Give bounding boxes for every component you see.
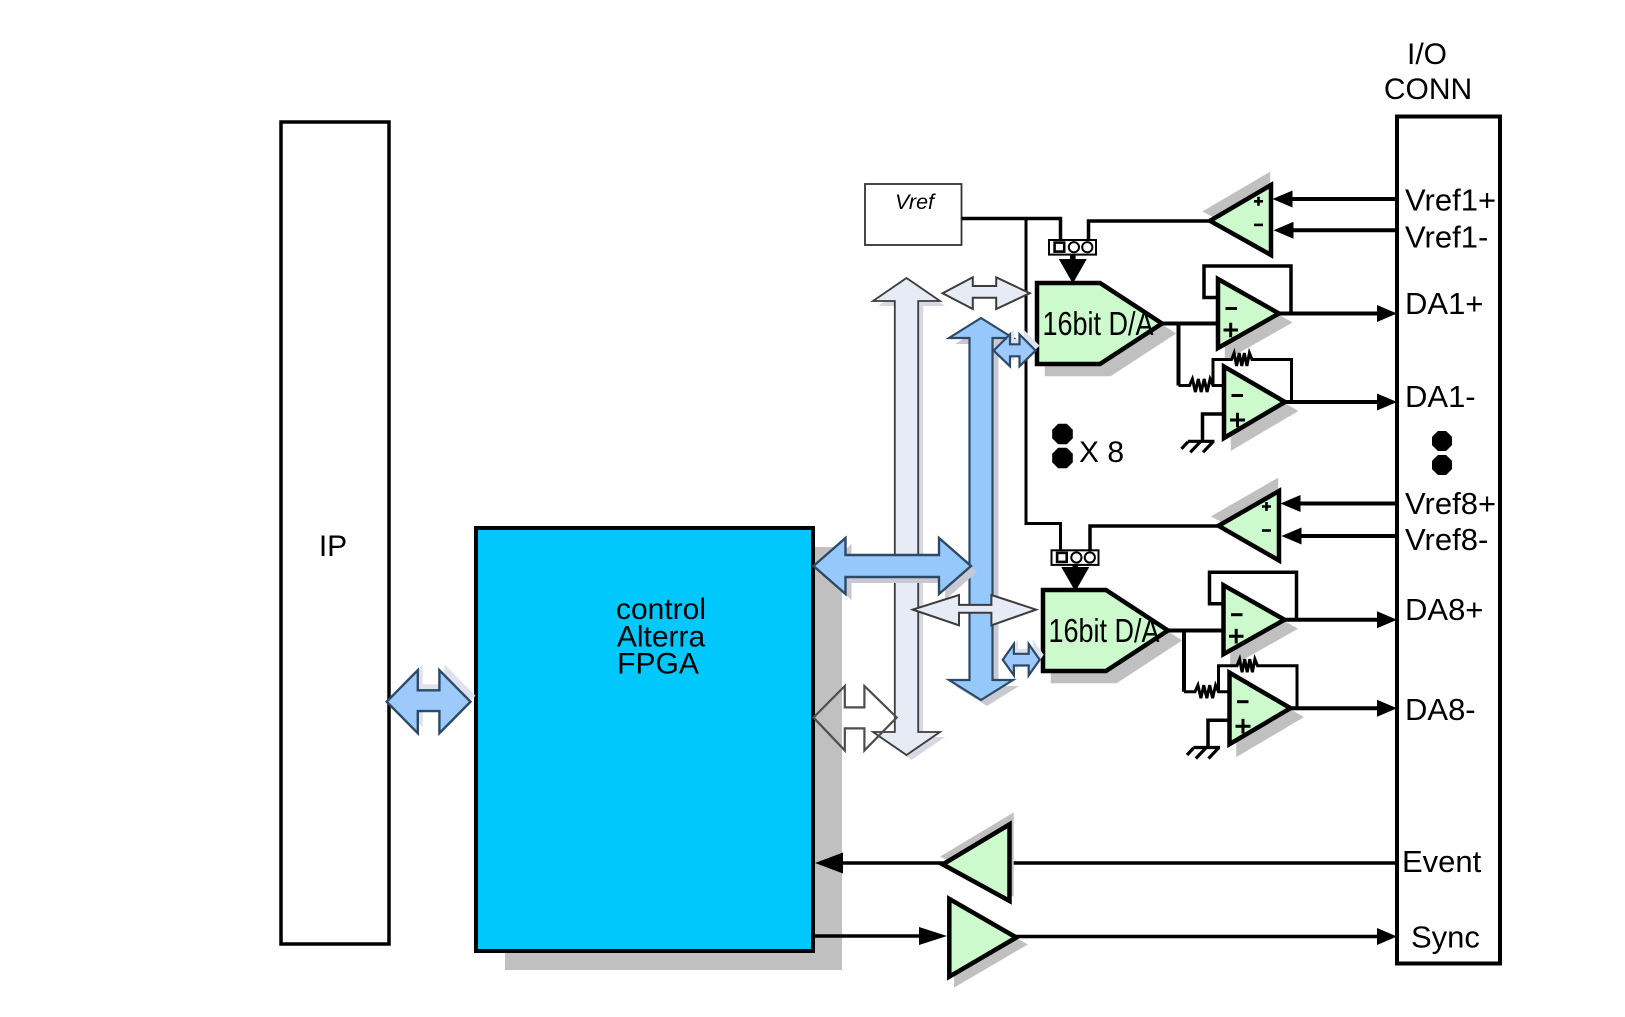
wire Vref1- input [1292, 228, 1397, 232]
wire DA8 output to op-amp U7 [1166, 629, 1225, 633]
connector repetition dots [1432, 431, 1452, 451]
svg-text:16bit D/A: 16bit D/A [1049, 612, 1160, 649]
wire comparator U9 output to JP8 [1090, 526, 1219, 551]
svg-text:Vref1-: Vref1- [1405, 220, 1488, 255]
ground GND1 [1203, 414, 1226, 441]
comparator U9 shadow [1216, 482, 1277, 552]
feedback wire U3 [1204, 266, 1291, 314]
op-amp U4 shadow [1233, 376, 1294, 448]
I/O connector J1 [1397, 117, 1500, 964]
wire junction to inverting stage ch8 [1182, 631, 1186, 692]
wire Vref8+ input [1299, 502, 1397, 506]
svg-text:I/O: I/O [1407, 38, 1447, 71]
svg-text:Vref8-: Vref8- [1405, 522, 1488, 557]
svg-text:Sync: Sync [1411, 920, 1480, 955]
jumper JP1 [1049, 240, 1096, 255]
comparator U5 (Vref1 receiver) [1210, 185, 1271, 255]
feedback wire U7 [1210, 572, 1297, 620]
svg-text:X 8: X 8 [1079, 436, 1124, 469]
Vref source box [865, 184, 962, 245]
wire junction to inverting stage ch1 [1177, 324, 1181, 386]
event buffer U10 shadow [945, 816, 1012, 893]
FPGA shadow [505, 547, 842, 970]
wire DA1 output to op-amp U3 [1160, 322, 1219, 326]
op-amp U3 (DA1+ driver) [1218, 279, 1279, 348]
16bit DA converter U2 (channel 1) [1037, 283, 1162, 364]
wire Vref1+ input [1291, 197, 1397, 201]
op-amp U8 shadow [1239, 682, 1300, 754]
resistor R1 (U4 input) [1179, 379, 1226, 392]
feedback resistor R4 (U8) [1219, 659, 1298, 708]
svg-text:16bit D/A: 16bit D/A [1043, 305, 1154, 342]
jumper JP8 [1052, 550, 1099, 565]
comparator U9 (Vref8 receiver) [1219, 491, 1280, 561]
wire Sync buffer to connector [1014, 935, 1387, 939]
op-amp U8 (DA8- driver) [1230, 673, 1291, 745]
wire U7 output to DA8+ pin [1283, 618, 1388, 622]
IP bus block [281, 122, 389, 944]
control bus arrow FPGA (outline) [814, 686, 897, 751]
channel repetition dots [1052, 424, 1073, 445]
svg-text:DA8-: DA8- [1405, 692, 1476, 727]
svg-text:IP: IP [319, 530, 347, 563]
svg-text:Vref8+: Vref8+ [1405, 486, 1496, 521]
feedback resistor R2 (U4) [1213, 353, 1292, 402]
svg-text:CONN: CONN [1384, 73, 1472, 106]
control bus arrow to DA8 (pale) [913, 595, 1036, 625]
sync buffer U11 shadow [956, 906, 1023, 984]
wire U8 output to DA8- pin [1289, 706, 1388, 710]
16bit DA converter U6 shadow [1053, 600, 1178, 681]
svg-text:Vref1+: Vref1+ [1405, 183, 1496, 218]
address bus arrow (tall pale vertical) [878, 283, 945, 760]
data bus arrow to DA8 (blue) [1007, 639, 1044, 670]
wire Event from connector to FPGA [843, 861, 1397, 865]
op-amp U3 shadow [1227, 288, 1288, 357]
FPGA data bus arrow (blue horizontal) [820, 544, 978, 600]
wire Vref bus down to ch8 [1026, 219, 1061, 552]
wire Vref out to jumper JP1 [962, 219, 1061, 241]
event buffer U10 [943, 824, 1010, 901]
wire U4 output to DA1- pin [1283, 400, 1387, 404]
control bus arrow to DA1 (pale) [943, 277, 1030, 309]
ground GND2 [1208, 720, 1231, 747]
data bus arrow (blue vertical) [955, 324, 1019, 706]
reference select arrow into DA1 [1070, 255, 1076, 262]
16bit DA converter U2 shadow [1047, 293, 1172, 374]
data bus arrow to DA1 (blue) [998, 329, 1040, 361]
op-amp U4 (DA1- driver) [1224, 367, 1285, 439]
svg-text:Event: Event [1402, 844, 1482, 879]
wire U3 output to DA1+ pin [1277, 312, 1387, 316]
reference select arrow into DA8 [1073, 565, 1079, 572]
svg-text:DA1-: DA1- [1405, 379, 1476, 414]
op-amp U7 (DA8+ driver) [1224, 585, 1285, 654]
resistor R3 (U8 input) [1184, 685, 1231, 698]
wire comparator U5 output to JP1 [1089, 221, 1211, 240]
control FPGA block U1 [476, 528, 813, 951]
svg-text:FPGA: FPGA [617, 648, 699, 681]
wire Sync FPGA to buffer [813, 934, 920, 938]
op-amp U7 shadow [1233, 594, 1294, 663]
comparator U5 shadow [1207, 176, 1268, 246]
svg-text:DA1+: DA1+ [1405, 286, 1483, 321]
16bit DA converter U6 (channel 8) [1043, 590, 1168, 671]
IP to FPGA bus arrow (blue) [392, 664, 476, 727]
sync buffer U11 [949, 899, 1016, 977]
svg-text:Vref: Vref [895, 190, 936, 214]
wire Vref8- input [1300, 534, 1397, 538]
svg-text:DA8+: DA8+ [1405, 592, 1483, 627]
